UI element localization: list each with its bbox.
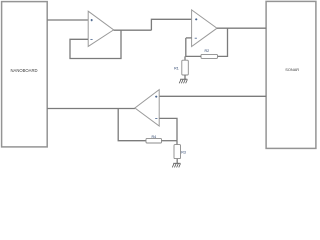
wire node to R3 — [176, 141, 178, 145]
sheet symbol SONAR — [266, 1, 316, 148]
label R1 — [174, 67, 179, 71]
wire SONAR to U3 + input — [159, 95, 266, 97]
resistor R2 — [201, 54, 218, 58]
svg-text:NANOBOARD: NANOBOARD — [11, 68, 38, 73]
wire R4 to node — [162, 140, 178, 142]
sheet symbol NANOBOARD — [2, 2, 48, 147]
resistor R3 — [174, 145, 181, 159]
wire U1 feedback loop — [70, 30, 121, 58]
resistor R1 — [182, 60, 189, 75]
op-amp U1 — [88, 11, 113, 46]
op-amp U2 — [186, 10, 217, 47]
resistor R4 — [146, 138, 162, 143]
wire U1 output — [114, 29, 152, 31]
svg-text:R1: R1 — [174, 67, 179, 71]
wire R3 to ground — [176, 159, 178, 164]
svg-text:R2: R2 — [204, 49, 209, 53]
wire U2 output to SONAR — [217, 27, 266, 29]
wire NANOBOARD to U1 + input — [47, 19, 88, 21]
wire node to R1 — [184, 56, 186, 60]
op-amp U3 — [135, 90, 159, 126]
wire U1 output riser to U2 — [151, 19, 191, 30]
svg-text:R4: R4 — [151, 135, 156, 139]
wire U3 output to NANOBOARD — [47, 108, 135, 110]
label R3 — [181, 151, 186, 155]
ground under R1 — [179, 79, 187, 83]
wire U2 output feedback drop — [218, 28, 228, 56]
wire R1 to ground — [184, 75, 186, 79]
wire U3 - input — [159, 118, 177, 140]
ground under R3 — [172, 163, 180, 167]
svg-text:SONAR: SONAR — [285, 67, 299, 72]
wire R2 to inverting node — [186, 38, 201, 57]
wire U3 feedback drop — [118, 109, 146, 141]
label R2 — [204, 49, 209, 53]
label R4 — [151, 135, 156, 139]
svg-text:R3: R3 — [181, 151, 186, 155]
